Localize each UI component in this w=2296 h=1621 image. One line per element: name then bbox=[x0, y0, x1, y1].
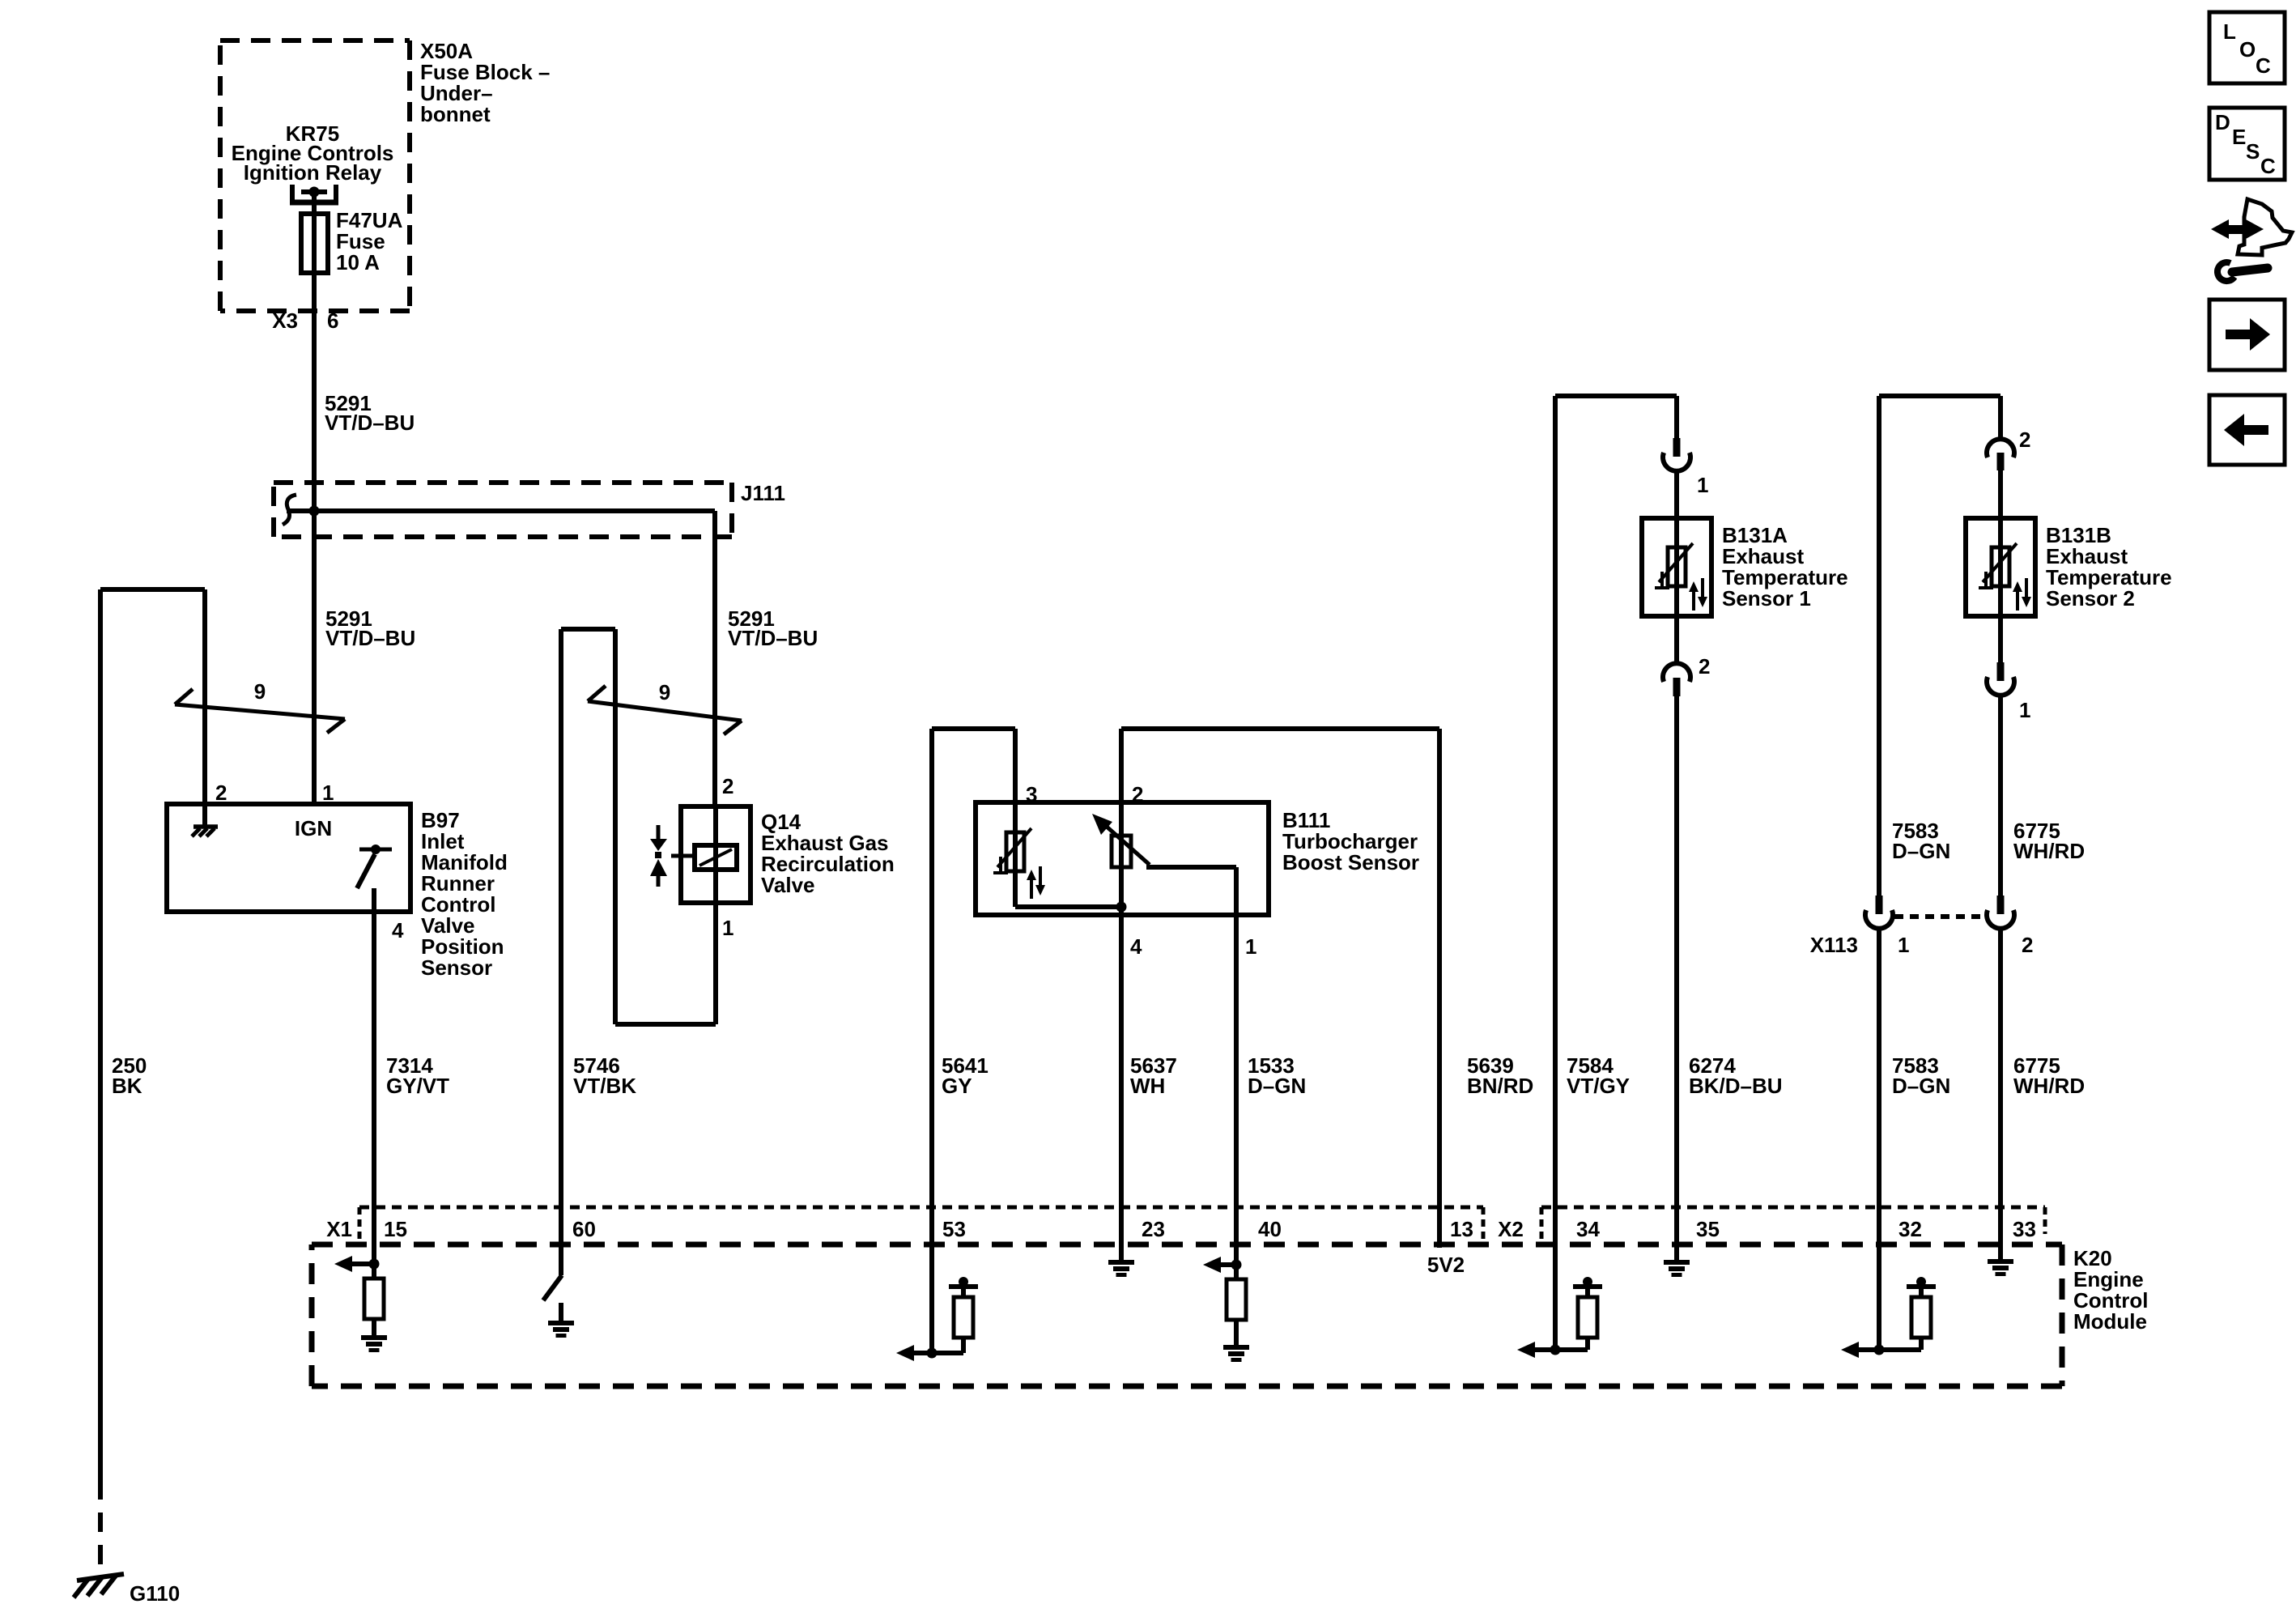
temperature arrows inside B131B bbox=[2013, 578, 2031, 611]
wire label 1533 D-GN bbox=[1248, 1053, 1306, 1098]
svg-text:VT/D–BU: VT/D–BU bbox=[325, 626, 415, 650]
wire 7583 D-GN top run to B131B pin 2 bbox=[1879, 396, 2000, 896]
svg-text:Sensor 2: Sensor 2 bbox=[2046, 586, 2135, 611]
pin 35 label bbox=[1696, 1217, 1720, 1241]
svg-text:IGN: IGN bbox=[295, 816, 332, 840]
svg-text:GY: GY bbox=[942, 1074, 972, 1098]
svg-text:WH/RD: WH/RD bbox=[2013, 1074, 2085, 1098]
svg-text:13: 13 bbox=[1450, 1217, 1473, 1241]
svg-text:BK/D–BU: BK/D–BU bbox=[1689, 1074, 1783, 1098]
node junction at J111 bbox=[309, 506, 320, 517]
icon box DESC bbox=[2209, 108, 2285, 180]
wire 250 BK dashed tail bbox=[98, 1513, 103, 1571]
svg-text:2: 2 bbox=[2022, 933, 2033, 957]
svg-text:1: 1 bbox=[1898, 933, 1909, 957]
switch symbol inside B97 bbox=[357, 845, 392, 888]
svg-text:34: 34 bbox=[1576, 1217, 1600, 1241]
pin 2 label of Q14 bbox=[722, 774, 733, 798]
svg-text:1: 1 bbox=[1245, 934, 1256, 959]
label KR75 Engine Controls Ignition Relay bbox=[232, 121, 394, 185]
pin 2 label of B131B bbox=[2019, 428, 2030, 452]
pin 4 label of B111 bbox=[1130, 934, 1142, 959]
ECM pin 34 internal arrow and node bbox=[1517, 1342, 1588, 1358]
svg-text:VT/D–BU: VT/D–BU bbox=[728, 626, 818, 650]
svg-text:1: 1 bbox=[722, 916, 733, 940]
pin 1 label of B131A bbox=[1697, 473, 1708, 497]
wire label 7584 VT/GY bbox=[1567, 1053, 1630, 1098]
inline connector X113 pin 1 bbox=[1865, 896, 1893, 929]
pin 40 label bbox=[1258, 1217, 1282, 1241]
svg-text:4: 4 bbox=[1130, 934, 1142, 959]
wire label 7583 D-GN (upper) bbox=[1892, 819, 1950, 863]
wire label 5291 VT/D-BU (upper) bbox=[325, 391, 415, 435]
svg-text:2: 2 bbox=[2019, 428, 2030, 452]
inline connector at B131B pin 1 bbox=[1987, 616, 2014, 696]
pin 53 label bbox=[942, 1217, 966, 1241]
connector X1 dotted row line bbox=[359, 1206, 1483, 1210]
ECM pin 34 pull-up resistor to 5V bbox=[1573, 1277, 1602, 1350]
pin 60 label bbox=[572, 1217, 596, 1241]
label B111 Turbocharger Boost Sensor bbox=[1282, 808, 1419, 874]
wire label 5641 GY bbox=[942, 1053, 989, 1098]
svg-text:1: 1 bbox=[1697, 473, 1708, 497]
svg-text:33: 33 bbox=[2013, 1217, 2036, 1241]
wire through Q14 bbox=[713, 806, 718, 903]
component box B97 bbox=[167, 804, 410, 912]
icon double arrow with component outline bbox=[2211, 199, 2292, 255]
wire B97 pin 4 (7314 GY/VT) to ECM pin 15 bbox=[372, 888, 376, 1264]
svg-text:9: 9 bbox=[254, 679, 266, 704]
svg-text:10 A: 10 A bbox=[336, 250, 380, 274]
wire B111 pin 4 (5637 WH) to ECM pin 23 bbox=[1119, 907, 1124, 1260]
wire 7584 VT/GY from ECM pin 34 up and over to B131A pin 1 bbox=[1555, 396, 1677, 1350]
label X113 and cavity numbers bbox=[1810, 933, 2034, 957]
connector X2 dotted row line bbox=[1541, 1206, 2045, 1210]
svg-text:VT/GY: VT/GY bbox=[1567, 1074, 1630, 1098]
svg-text:O: O bbox=[2239, 37, 2256, 62]
wire 250 BK from B97 pin 2 to G110 bbox=[100, 589, 205, 1500]
wire label 5291 VT/D-BU (left branch) bbox=[325, 606, 415, 650]
ECM pin 23 ground bbox=[1108, 1260, 1134, 1277]
net 5V2 label bbox=[1427, 1253, 1465, 1277]
svg-text:X113: X113 bbox=[1810, 933, 1858, 957]
pin 1 label of Q14 bbox=[722, 916, 733, 940]
svg-text:C: C bbox=[2260, 154, 2276, 178]
ECM pin 53 pull-up resistor to 5V bbox=[949, 1277, 978, 1353]
svg-text:1: 1 bbox=[322, 781, 334, 805]
splice pack J111 dashed outline bbox=[274, 483, 732, 537]
wire label 5291 VT/D-BU (right branch) bbox=[728, 606, 818, 650]
ECM pin 53 internal arrow and node bbox=[896, 1345, 963, 1361]
wire label 5637 WH bbox=[1130, 1053, 1177, 1098]
pin 1 label of B97 bbox=[322, 781, 334, 805]
pin 2 label of B131A bbox=[1699, 654, 1710, 679]
svg-text:32: 32 bbox=[1898, 1217, 1922, 1241]
pin 1 label of B111 bbox=[1245, 934, 1256, 959]
wire label 6775 WH/RD (lower) bbox=[2013, 1053, 2085, 1098]
svg-text:L: L bbox=[2223, 19, 2236, 44]
fuse block X50A (underbonnet) dashed outline bbox=[220, 40, 410, 311]
svg-text:X2: X2 bbox=[1498, 1217, 1524, 1241]
pin 2 label of B111 bbox=[1132, 782, 1143, 806]
wire J111 to B97 pin 1 (5291 branch left) bbox=[312, 511, 317, 804]
component box B131B bbox=[1966, 518, 2035, 616]
component box Q14 bbox=[681, 806, 750, 903]
svg-text:J111: J111 bbox=[741, 481, 785, 505]
potentiometer symbol inside B111 (pins 2/4) bbox=[1092, 802, 1150, 907]
J111 bus wire bbox=[287, 508, 715, 513]
inline connector at B131B pin 2 bbox=[1987, 439, 2014, 470]
wire label 6775 WH/RD (upper) bbox=[2013, 819, 2085, 863]
harness crossing arrow 9 (left) bbox=[175, 679, 345, 733]
ECM pin 40 pull resistor bbox=[1227, 1265, 1246, 1345]
svg-text:60: 60 bbox=[572, 1217, 596, 1241]
svg-text:2: 2 bbox=[722, 774, 733, 798]
svg-text:40: 40 bbox=[1258, 1217, 1282, 1241]
icon box LOC bbox=[2209, 12, 2285, 83]
wire Q14 pin 1 loop (5746 VT/BK) to ECM pin 60 bbox=[561, 629, 716, 1275]
label B131B Exhaust Temperature Sensor 2 bbox=[2046, 523, 2172, 611]
pin 33 label bbox=[2013, 1217, 2036, 1241]
ECM pin 60 switch contact bbox=[543, 1275, 562, 1300]
temperature arrows inside B131A bbox=[1689, 578, 1707, 611]
svg-text:X3: X3 bbox=[272, 308, 298, 333]
svg-text:15: 15 bbox=[384, 1217, 407, 1241]
ECM pin 40 internal arrow and node bbox=[1203, 1257, 1242, 1273]
svg-text:23: 23 bbox=[1142, 1217, 1165, 1241]
label B97 Inlet Manifold Runner Control Valve Position Sensor bbox=[421, 808, 508, 980]
pin 23 label bbox=[1142, 1217, 1165, 1241]
component box B111 bbox=[976, 802, 1269, 915]
pin 34 label bbox=[1576, 1217, 1600, 1241]
connector X3 pin 6 label bbox=[272, 308, 338, 333]
wire 6274 BK/D-BU from B131A pin 2 to ECM pin 35 bbox=[1674, 696, 1679, 1260]
svg-text:D–GN: D–GN bbox=[1892, 1074, 1950, 1098]
label X50A Fuse Block - Underbonnet bbox=[420, 39, 550, 126]
svg-text:BK: BK bbox=[112, 1074, 142, 1098]
ECM pin 32 internal arrow and node bbox=[1841, 1342, 1921, 1358]
harness crossing arrow 9 (right) bbox=[588, 680, 742, 734]
icon box arrow left bbox=[2209, 395, 2285, 465]
connector X1 separator tick bbox=[358, 1207, 362, 1239]
wire 6775 WH/RD from X113 pin 2 to ECM pin 33 bbox=[1998, 928, 2003, 1259]
label IGN inside B97 bbox=[295, 816, 332, 840]
label Q14 Exhaust Gas Recirculation Valve bbox=[761, 810, 895, 897]
wire label 7314 GY/VT bbox=[386, 1053, 449, 1098]
svg-text:35: 35 bbox=[1696, 1217, 1720, 1241]
pin 15 label bbox=[384, 1217, 407, 1241]
svg-text:D–GN: D–GN bbox=[1892, 839, 1950, 863]
wire label 6274 BK/D-BU bbox=[1689, 1053, 1783, 1098]
wire label 5639 BN/RD bbox=[1467, 1053, 1533, 1098]
connector X2 end tick bbox=[2043, 1207, 2047, 1234]
svg-text:2: 2 bbox=[215, 781, 227, 805]
label X2 bbox=[1498, 1217, 1524, 1241]
svg-text:53: 53 bbox=[942, 1217, 966, 1241]
svg-text:G110: G110 bbox=[130, 1581, 180, 1606]
svg-text:GY/VT: GY/VT bbox=[386, 1074, 449, 1098]
svg-text:D: D bbox=[2215, 110, 2230, 134]
ECM pin 15 ground bbox=[361, 1335, 387, 1352]
thermistor symbol inside B111 (pin 3) bbox=[993, 802, 1031, 907]
connector X2 separator tick right bbox=[1540, 1207, 1544, 1239]
wire from relay KR75 to fuse F47UA and down to J111 bbox=[312, 194, 317, 511]
svg-text:9: 9 bbox=[659, 680, 670, 704]
svg-text:S: S bbox=[2246, 139, 2260, 164]
svg-text:1: 1 bbox=[2019, 698, 2030, 722]
pin 4 label of B97 bbox=[392, 918, 404, 942]
fuse F47UA 10 A bbox=[301, 214, 328, 273]
ECM pin 33 ground bbox=[1988, 1259, 2013, 1276]
ground G110 chassis symbol bbox=[74, 1574, 124, 1598]
wire label 5746 VT/BK bbox=[573, 1053, 636, 1098]
temperature arrows inside B111 bbox=[1027, 866, 1045, 899]
pin 13 label bbox=[1450, 1217, 1473, 1241]
component box B131A bbox=[1642, 518, 1711, 616]
wire label 250 BK bbox=[112, 1053, 147, 1098]
pin 3 label of B111 bbox=[1026, 782, 1037, 806]
label B131A Exhaust Temperature Sensor 1 bbox=[1722, 523, 1848, 611]
ECM pin 35 ground bbox=[1664, 1260, 1690, 1277]
pin 2 label of B97 bbox=[215, 781, 227, 805]
ECM pin 15 internal arrow and node bbox=[334, 1256, 380, 1272]
pin 32 label bbox=[1898, 1217, 1922, 1241]
svg-text:Boost Sensor: Boost Sensor bbox=[1282, 850, 1419, 874]
inline connector X113 pin 2 bbox=[1987, 896, 2014, 929]
wiper wire to B111 pin 1 bbox=[1146, 867, 1236, 1265]
svg-text:BN/RD: BN/RD bbox=[1467, 1074, 1533, 1098]
engine control module K20 dashed outline bbox=[312, 1244, 2062, 1386]
inline connector at B131A pin 2 bbox=[1663, 616, 1690, 696]
svg-text:Ignition Relay: Ignition Relay bbox=[244, 160, 382, 185]
wire 6775 WH/RD from B131B pin 1 to X113 pin 2 bbox=[1998, 695, 2003, 896]
svg-text:WH: WH bbox=[1130, 1074, 1165, 1098]
svg-text:X1: X1 bbox=[326, 1217, 352, 1241]
ECM pin 32 pull-up resistor to 5V bbox=[1907, 1277, 1936, 1350]
svg-text:Valve: Valve bbox=[761, 873, 815, 897]
pin 1 label of B131B bbox=[2019, 698, 2030, 722]
label G110 bbox=[130, 1581, 180, 1606]
svg-text:5V2: 5V2 bbox=[1427, 1253, 1465, 1277]
svg-text:4: 4 bbox=[392, 918, 404, 942]
svg-text:VT/BK: VT/BK bbox=[573, 1074, 636, 1098]
dashed tie between X113 halves bbox=[1894, 914, 1985, 919]
solenoid coil symbol inside Q14 bbox=[671, 845, 737, 870]
wire B111 pin 2 riser and over to 5639 BN/RD down to ECM pin 13 bbox=[1121, 729, 1439, 1248]
svg-text:E: E bbox=[2232, 125, 2246, 149]
thermistor symbol inside B131A bbox=[1655, 518, 1693, 616]
icon box arrow right bbox=[2209, 300, 2285, 370]
svg-text:VT/D–BU: VT/D–BU bbox=[325, 411, 415, 435]
connector X2 separator tick left bbox=[1482, 1207, 1486, 1239]
wire J111 to Q14 pin 2 (5291 branch right) bbox=[712, 511, 717, 806]
internal chassis ground symbol inside B97 (pin 2) bbox=[192, 804, 218, 836]
label K20 Engine Control Module bbox=[2073, 1246, 2148, 1334]
ECM pin 60 ground bbox=[548, 1303, 574, 1338]
svg-text:Sensor: Sensor bbox=[421, 955, 492, 980]
svg-text:2: 2 bbox=[1699, 654, 1710, 679]
svg-text:Module: Module bbox=[2073, 1309, 2147, 1334]
label J111 bbox=[741, 481, 785, 505]
svg-text:Sensor 1: Sensor 1 bbox=[1722, 586, 1811, 611]
relay KR75 output terminal symbol bbox=[290, 185, 338, 204]
svg-text:C: C bbox=[2256, 53, 2271, 78]
wire 5641 GY from ECM pin 53 up and over to B111 pin 3 bbox=[932, 729, 1015, 1353]
svg-text:bonnet: bonnet bbox=[420, 102, 491, 126]
thermistor symbol inside B131B bbox=[1979, 518, 2017, 616]
icon wrench bbox=[2217, 262, 2268, 281]
svg-text:WH/RD: WH/RD bbox=[2013, 839, 2085, 863]
ECM pin 15 pull resistor bbox=[364, 1264, 384, 1335]
label F47UA Fuse 10 A bbox=[336, 208, 403, 274]
wire label 7583 D-GN (lower) bbox=[1892, 1053, 1950, 1098]
wire into B131B bbox=[1998, 470, 2003, 518]
wire into B131A bbox=[1674, 470, 1679, 518]
valve pintle symbol left of Q14 bbox=[650, 825, 667, 887]
svg-text:6: 6 bbox=[327, 308, 338, 333]
wire 7583 D-GN from X113 pin 1 to ECM pin 32 bbox=[1877, 928, 1881, 1350]
internal link wire and node inside B111 bbox=[1015, 902, 1127, 913]
inline connector at B131A pin 1 bbox=[1663, 438, 1690, 471]
svg-text:D–GN: D–GN bbox=[1248, 1074, 1306, 1098]
ECM pin 40 ground bbox=[1223, 1345, 1249, 1362]
splice hook symbol in J111 bbox=[283, 495, 296, 525]
label X1 bbox=[326, 1217, 352, 1241]
